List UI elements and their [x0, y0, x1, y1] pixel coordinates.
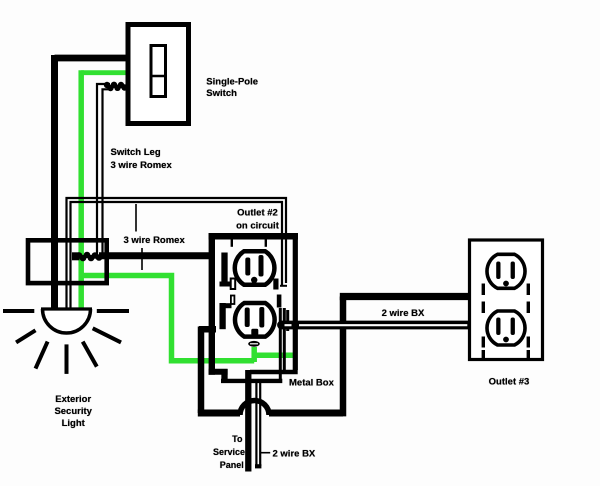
svg-text:2 wire BX: 2 wire BX	[382, 308, 425, 319]
svg-text:3 wire Romex: 3 wire Romex	[124, 235, 186, 246]
svg-text:Switch: Switch	[206, 88, 237, 99]
svg-text:Light: Light	[62, 418, 86, 429]
svg-text:Outlet #3: Outlet #3	[489, 377, 530, 388]
svg-text:Security: Security	[54, 406, 92, 417]
svg-text:Single-Pole: Single-Pole	[206, 77, 258, 88]
svg-text:Service: Service	[213, 447, 245, 457]
svg-text:Switch Leg: Switch Leg	[111, 147, 161, 158]
svg-text:on circuit: on circuit	[236, 220, 280, 231]
svg-text:Panel: Panel	[220, 460, 244, 470]
svg-text:3 wire Romex: 3 wire Romex	[111, 160, 173, 171]
svg-text:2 wire BX: 2 wire BX	[273, 449, 316, 460]
svg-text:To: To	[232, 434, 243, 444]
svg-text:Metal Box: Metal Box	[289, 378, 335, 389]
svg-text:Outlet #2: Outlet #2	[237, 208, 278, 219]
svg-text:Exterior: Exterior	[55, 394, 91, 405]
